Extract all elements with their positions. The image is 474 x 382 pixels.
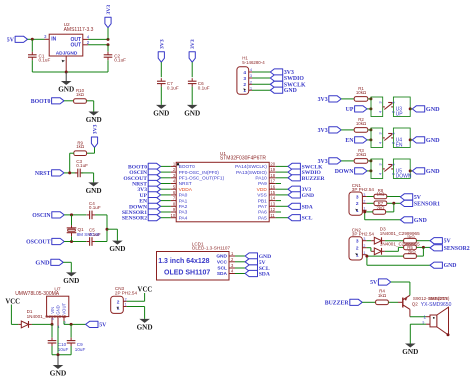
svg-text:GND: GND: [302, 193, 314, 199]
svg-text:EN: EN: [345, 138, 354, 144]
svg-text:3V3: 3V3: [159, 39, 165, 49]
wire R10 to gnd: [86, 100, 93, 102]
svg-text:SWDIO: SWDIO: [284, 76, 304, 82]
svg-text:1: 1: [125, 303, 127, 307]
svg-text:2kΩ: 2kΩ: [376, 206, 385, 211]
svg-text:Q2: Q2: [412, 302, 419, 307]
svg-text:PA13(SWDIO): PA13(SWDIO): [236, 170, 267, 176]
wire BOOT0 to R10: [64, 100, 74, 102]
svg-text:GND: GND: [426, 137, 440, 144]
wire D2 to R mid: [385, 250, 399, 252]
svg-text:11: 11: [270, 213, 275, 218]
svg-text:3: 3: [363, 237, 365, 241]
svg-text:3V3: 3V3: [190, 39, 196, 49]
svg-text:SCL: SCL: [217, 266, 227, 272]
svg-text:1kΩ: 1kΩ: [376, 191, 385, 196]
connector CN2 body: [349, 237, 362, 260]
svg-text:0.1uF: 0.1uF: [114, 58, 126, 63]
wire R6 to pin1 node: [365, 211, 373, 213]
svg-text:GND: GND: [284, 88, 297, 94]
net flag EN: [355, 137, 367, 143]
wire R1 to switch: [368, 98, 371, 100]
mcu U1 body: [176, 162, 269, 222]
crystal Q1 8M: [67, 227, 77, 229]
svg-text:12: 12: [270, 207, 275, 212]
svg-text:13: 13: [270, 201, 275, 206]
capacitor C4 0.1uF: [89, 211, 91, 220]
svg-text:1: 1: [363, 251, 365, 255]
svg-text:10: 10: [171, 213, 176, 218]
svg-text:UMW78L05-300MA: UMW78L05-300MA: [15, 291, 60, 297]
svg-text:3V3: 3V3: [93, 124, 99, 134]
wire R2 to switch: [368, 129, 371, 131]
svg-text:PA4: PA4: [179, 215, 188, 221]
svg-text:UP: UP: [396, 111, 404, 117]
wire pin2 to VCC: [127, 300, 145, 302]
net flag GND H1: [270, 87, 282, 93]
net flag GND CN2: [430, 262, 442, 268]
wire pin2 to D2: [367, 247, 371, 249]
wire EN to switch: [367, 139, 371, 141]
switch U3 left contact: [371, 97, 383, 117]
svg-text:GND: GND: [153, 110, 169, 118]
node junction right rail: [106, 228, 109, 231]
wire R to SENSOR2: [416, 246, 430, 248]
svg-text:0.1uF: 0.1uF: [167, 86, 179, 91]
connector H1 body: [237, 67, 249, 95]
node junction SENSOR2: [422, 246, 425, 249]
svg-text:ADJ/GND: ADJ/GND: [56, 51, 78, 57]
svg-text:SENSOR1: SENSOR1: [414, 201, 440, 207]
ground symbol mid: [66, 272, 77, 276]
wire R8 to 5V: [387, 196, 401, 198]
svg-text:0.1uF: 0.1uF: [89, 205, 101, 210]
switch U4 right body: [393, 128, 410, 148]
resistor R5 1k: [404, 238, 417, 243]
svg-text:19: 19: [270, 167, 275, 172]
svg-text:SENSOR2: SENSOR2: [122, 216, 147, 222]
capacitor C5 0.1uF: [89, 237, 91, 246]
net flag SENSOR1: [400, 200, 412, 206]
net flag 5V LCD: [245, 259, 257, 265]
svg-text:10uF: 10uF: [75, 347, 86, 352]
pin1 marker CN2: [355, 253, 358, 256]
svg-text:10kΩ: 10kΩ: [356, 121, 367, 126]
node junction bottom U3: [369, 107, 372, 110]
wire C10 to rail: [51, 346, 53, 355]
wire 3V3 to R1: [341, 98, 354, 100]
svg-text:PA1: PA1: [179, 198, 188, 204]
switch U5 right body: [393, 159, 410, 179]
ground symbol C7: [156, 105, 167, 109]
node junction C9: [70, 323, 73, 326]
net flag OSCIN: [52, 212, 64, 218]
ground symbol U2: [65, 72, 67, 81]
node junction VIN/C10: [51, 323, 54, 326]
svg-text:NRST: NRST: [179, 181, 192, 187]
node junction gnd: [65, 71, 68, 74]
svg-text:4: 4: [250, 68, 252, 72]
net flag 5V CN1: [400, 194, 412, 200]
svg-text:14: 14: [270, 196, 275, 201]
pin stubs CN3: [123, 300, 126, 302]
svg-text:VSS: VSS: [257, 193, 267, 199]
svg-text:2: 2: [250, 81, 252, 85]
svg-text:1N4001_C2999965: 1N4001_C2999965: [27, 314, 67, 319]
resistor R2 10k: [354, 128, 368, 133]
svg-text:5-146280-4: 5-146280-4: [242, 60, 265, 65]
svg-text:3P PH2.54: 3P PH2.54: [352, 232, 375, 237]
svg-text:5V: 5V: [7, 37, 15, 43]
svg-text:PA3: PA3: [179, 210, 188, 216]
svg-text:1kΩ: 1kΩ: [76, 144, 85, 149]
wire GND flag: [63, 261, 71, 263]
svg-text:5V: 5V: [259, 260, 266, 266]
node junction bottom U5: [369, 169, 372, 172]
power flag 3V3 U4: [329, 127, 341, 133]
svg-text:PF1-OSC_OUT(PF1): PF1-OSC_OUT(PF1): [179, 176, 225, 182]
svg-text:18: 18: [270, 173, 275, 178]
svg-text:OSCOUT: OSCOUT: [26, 240, 51, 246]
svg-text:DOWN: DOWN: [335, 169, 354, 175]
svg-text:GND: GND: [86, 187, 102, 195]
regulator U2 body: [49, 34, 83, 56]
connector CN1 body: [349, 192, 362, 215]
svg-text:PA0: PA0: [179, 193, 188, 199]
svg-text:2: 2: [356, 246, 359, 252]
svg-text:GND: GND: [426, 106, 440, 113]
speaker LS1 body: [430, 315, 437, 327]
switch U3 actuator: [383, 106, 385, 108]
svg-text:2: 2: [243, 82, 246, 88]
connector CN3 body: [111, 296, 124, 313]
wire D3 to R5: [385, 240, 404, 242]
wire 3V3 to R3: [341, 160, 354, 162]
node junction top U5: [369, 159, 372, 162]
wire gnd rail bottom: [31, 60, 33, 72]
wire 3V3 rail: [107, 28, 109, 40]
wire pin1 to GND flag CN2: [367, 264, 430, 266]
net flag OSCOUT: [52, 238, 64, 244]
power flag 5V buzzer: [378, 279, 390, 285]
svg-text:PA9: PA9: [258, 181, 267, 187]
net flag SWDIO H1: [270, 75, 282, 81]
svg-text:OLED SH1107: OLED SH1107: [164, 270, 210, 277]
node junction OSCOUT: [70, 240, 73, 243]
node junction bottom rail: [57, 353, 60, 356]
svg-text:VOUT: VOUT: [61, 303, 66, 315]
svg-text:3: 3: [250, 74, 252, 78]
wire NRST node: [64, 172, 77, 174]
wire UP to switch: [367, 108, 371, 110]
wire DOWN to switch: [367, 170, 371, 172]
wire C2 to gnd rail: [107, 60, 109, 72]
svg-text:PA14(SWCLK): PA14(SWCLK): [235, 164, 267, 170]
svg-text:VIN: VIN: [50, 307, 55, 314]
pin1 arrow mark: [62, 60, 65, 63]
svg-text:SDA: SDA: [217, 271, 228, 277]
svg-text:5V: 5V: [444, 239, 452, 245]
wire R9 to NRST node: [70, 152, 74, 154]
wire VOUT to 5V: [63, 321, 65, 324]
net flag GND CN1: [400, 217, 412, 223]
svg-text:GND: GND: [184, 110, 200, 118]
svg-text:20: 20: [270, 162, 275, 167]
svg-text:2kΩ: 2kΩ: [408, 249, 417, 254]
power flag 3V3 C6: [189, 52, 195, 62]
wire crystal right rail: [106, 215, 108, 242]
svg-text:VDDA: VDDA: [179, 187, 193, 193]
ground symbol buzzer: [405, 344, 416, 348]
resistor R8 1k: [374, 194, 387, 199]
ground symbol R10: [88, 112, 99, 116]
wire to gnd branch: [107, 228, 117, 230]
wire 3V3 to R9: [94, 147, 96, 153]
net flag GND U3: [412, 106, 424, 112]
net flag GND U5: [412, 168, 424, 174]
wire VCC to D1: [11, 323, 18, 325]
diode D3: [374, 237, 381, 244]
svg-text:GND: GND: [63, 277, 79, 285]
wire SENSOR1 to R6: [393, 203, 395, 212]
capacitor C10 10uF: [48, 340, 57, 342]
node junction top U4: [369, 128, 372, 131]
svg-text:0.1uF: 0.1uF: [39, 58, 51, 63]
svg-text:3: 3: [356, 194, 359, 200]
wire switch to gnd flag: [410, 108, 412, 110]
wire pin1 down CN2: [366, 255, 368, 266]
net flag 3V3 H1: [270, 69, 282, 75]
net flag BUZZER: [350, 299, 362, 305]
svg-text:1kΩ: 1kΩ: [407, 234, 416, 239]
svg-text:0.1uF: 0.1uF: [76, 163, 88, 168]
svg-text:GND: GND: [58, 86, 74, 94]
svg-text:SDA: SDA: [302, 204, 313, 210]
svg-text:1.3 inch 64x128: 1.3 inch 64x128: [158, 258, 209, 265]
svg-text:15: 15: [270, 190, 275, 195]
wire 3V3 to C7: [160, 62, 162, 77]
svg-text:GND: GND: [402, 348, 418, 356]
wire 5V to emitter: [391, 281, 410, 283]
wire pin1 down: [364, 210, 366, 220]
svg-text:NRST: NRST: [35, 171, 51, 177]
ground symbol C3: [88, 182, 99, 186]
svg-text:SENSOR2: SENSOR2: [444, 246, 470, 252]
wire pin3 to R8: [367, 196, 374, 198]
pin1 marker CN1: [355, 209, 358, 212]
svg-text:3: 3: [243, 76, 246, 82]
node junction pin1 CN1: [363, 210, 366, 213]
wire crystal left leg: [71, 215, 73, 226]
svg-text:SCL: SCL: [302, 216, 313, 222]
node junction gnd U5: [409, 169, 412, 172]
pin 4 OUT wire: [83, 38, 88, 40]
svg-text:4: 4: [243, 70, 246, 76]
pin 1 ADJ/GND stub: [65, 56, 67, 72]
svg-text:VCC: VCC: [5, 298, 20, 305]
wire C3 to gnd: [81, 172, 93, 174]
svg-text:1kΩ: 1kΩ: [76, 92, 85, 97]
wire 3V3 to C6: [191, 62, 193, 77]
capacitor C9 10uF: [70, 324, 72, 337]
pin1 marker H1: [243, 88, 246, 91]
wire 3V3 to R2: [341, 129, 354, 131]
switch U4 actuator: [383, 137, 385, 139]
wire R7 to SENSOR1: [387, 202, 401, 204]
ground symbol CN3: [139, 319, 150, 323]
net flag GND: [51, 259, 63, 265]
svg-text:16: 16: [270, 184, 275, 189]
capacitor C1 0.1uF: [28, 54, 37, 56]
power net flag 5V: [15, 36, 27, 42]
svg-text:2: 2: [363, 200, 365, 204]
net flag GND U4: [412, 137, 424, 143]
net flag SENSOR2: [430, 245, 442, 251]
wire C10 branch: [51, 324, 53, 337]
power net flag 3V3 (NRST pullup): [91, 137, 97, 147]
pin stubs U7: [51, 317, 53, 325]
svg-text:GND: GND: [35, 259, 50, 266]
switch U3 right body: [393, 97, 410, 117]
pin1 square marker: [177, 163, 179, 165]
svg-text:AMS1117-3.3: AMS1117-3.3: [64, 27, 94, 33]
svg-text:3: 3: [363, 193, 365, 197]
svg-text:3V3: 3V3: [318, 97, 328, 103]
svg-text:1: 1: [250, 86, 252, 90]
pin1 marker CN3: [117, 307, 120, 310]
svg-text:PA10: PA10: [255, 176, 267, 182]
svg-text:IN: IN: [51, 36, 56, 42]
wire R3 to switch: [368, 160, 371, 162]
svg-text:PA7: PA7: [258, 204, 267, 210]
resistor R1 10k: [354, 97, 368, 102]
resistor R10 1k: [74, 99, 87, 104]
wire GND pin down: [57, 326, 59, 355]
svg-text:GND: GND: [50, 369, 67, 378]
svg-text:2P PH2.54: 2P PH2.54: [115, 290, 138, 295]
resistor R9 1k: [74, 151, 87, 156]
svg-text:GND: GND: [137, 324, 153, 332]
svg-text:8M SMD49: 8M SMD49: [77, 232, 100, 237]
svg-text:OUT: OUT: [70, 42, 81, 48]
svg-text:PB1: PB1: [258, 198, 267, 204]
node junction SENSOR1: [392, 202, 395, 205]
capacitor C2 0.1uF: [104, 54, 113, 56]
svg-text:2: 2: [363, 244, 365, 248]
power flag 3V3 U5: [329, 158, 341, 164]
node junction OSCIN: [70, 213, 73, 216]
svg-text:DOWN: DOWN: [396, 173, 412, 179]
svg-text:EN: EN: [396, 142, 403, 148]
wire C1 branch: [31, 39, 33, 52]
net flag NRST: [52, 170, 64, 176]
svg-text:2: 2: [125, 297, 127, 301]
svg-text:YX-SMD9650: YX-SMD9650: [421, 302, 452, 308]
U1 left pins: [171, 165, 177, 167]
wire BUZZER to R4: [362, 301, 376, 303]
svg-text:VCC: VCC: [217, 260, 228, 266]
wire C6 to gnd: [191, 87, 193, 105]
svg-text:1: 1: [363, 207, 365, 211]
wire speaker pin2 to gnd: [426, 323, 430, 325]
capacitor C6 0.1uF: [188, 80, 197, 82]
wire pin1 to GND: [127, 306, 145, 308]
wire R5 to 5V: [416, 240, 430, 242]
svg-text:GND: GND: [444, 263, 457, 269]
speaker dot: [433, 317, 435, 319]
resistor 2k CN2: [404, 254, 417, 259]
wire C4 to right rail: [95, 214, 107, 216]
ground symbol C6: [187, 105, 198, 109]
svg-text:PA6: PA6: [258, 210, 267, 216]
wire pin2 to R7: [367, 202, 374, 204]
wire OSCOUT row: [64, 241, 86, 243]
svg-text:3P PH2.54: 3P PH2.54: [352, 187, 375, 192]
wire switch to gnd flag: [410, 139, 412, 141]
U1 left net flags: [161, 165, 171, 167]
net flag GND LCD: [245, 253, 257, 259]
U1 right pins: [269, 165, 276, 167]
switch U5 left contact: [371, 159, 383, 179]
node junction pin1 CN2: [365, 255, 368, 258]
switch U4 left contact: [371, 128, 383, 148]
transistor Q2 S9012: [402, 298, 404, 308]
net flag 5V CN2: [430, 238, 442, 244]
svg-text:UP: UP: [346, 107, 354, 113]
svg-text:VDD: VDD: [257, 187, 268, 193]
svg-text:BUZZER: BUZZER: [325, 300, 350, 306]
svg-text:S8A2815: S8A2815: [429, 296, 448, 301]
svg-text:5V: 5V: [99, 322, 107, 328]
net flag UP: [355, 106, 367, 112]
net flag 5V out: [86, 321, 98, 327]
svg-text:5V: 5V: [370, 280, 378, 286]
power flag 3V3 C7: [158, 52, 164, 62]
svg-text:GND: GND: [216, 254, 227, 260]
wire stub pin3: [45, 38, 50, 40]
net flag DOWN: [355, 168, 367, 174]
svg-text:SDA: SDA: [259, 272, 270, 278]
node junction 5V/C1: [31, 38, 34, 41]
svg-text:PF0-OSC_IN(PF0): PF0-OSC_IN(PF0): [179, 170, 220, 176]
display LCD1 body: [157, 252, 230, 281]
svg-text:5V: 5V: [414, 195, 422, 201]
svg-text:10uF: 10uF: [58, 347, 69, 352]
switch U5 actuator: [383, 168, 385, 170]
resistor R6 2k: [373, 210, 386, 215]
power net flag 3V3 (vertical): [105, 17, 111, 27]
svg-text:0.1uF: 0.1uF: [198, 86, 210, 91]
svg-text:10kΩ: 10kΩ: [356, 152, 367, 157]
svg-text:2: 2: [117, 300, 120, 306]
wire D1 to VIN node: [32, 323, 52, 325]
svg-text:BUZZER: BUZZER: [302, 176, 326, 182]
wire collector to speaker: [409, 309, 411, 316]
speaker cone: [437, 307, 449, 335]
wire 2k to pin1 node: [367, 255, 404, 257]
node junction top U3: [369, 97, 372, 100]
resistor R4 1k: [376, 300, 389, 305]
net flag SDA LCD: [245, 270, 257, 276]
resistor R mid CN2: [404, 245, 417, 250]
wire OSCIN row: [64, 214, 86, 216]
pin stubs H1: [249, 71, 252, 73]
wire pin1 to GND flag: [365, 219, 401, 221]
power flag 3V3 U3: [329, 96, 341, 102]
svg-text:BOOT0: BOOT0: [179, 164, 196, 170]
svg-text:PA2: PA2: [179, 204, 188, 210]
svg-text:OSCIN: OSCIN: [32, 213, 51, 219]
